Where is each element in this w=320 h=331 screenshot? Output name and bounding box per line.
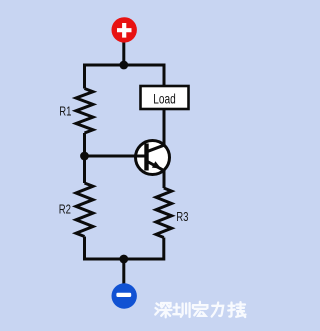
svg-text:R1: R1 — [59, 104, 71, 119]
svg-text:R2: R2 — [59, 202, 71, 217]
svg-text:Load: Load — [153, 91, 176, 107]
svg-text:R3: R3 — [176, 209, 188, 224]
